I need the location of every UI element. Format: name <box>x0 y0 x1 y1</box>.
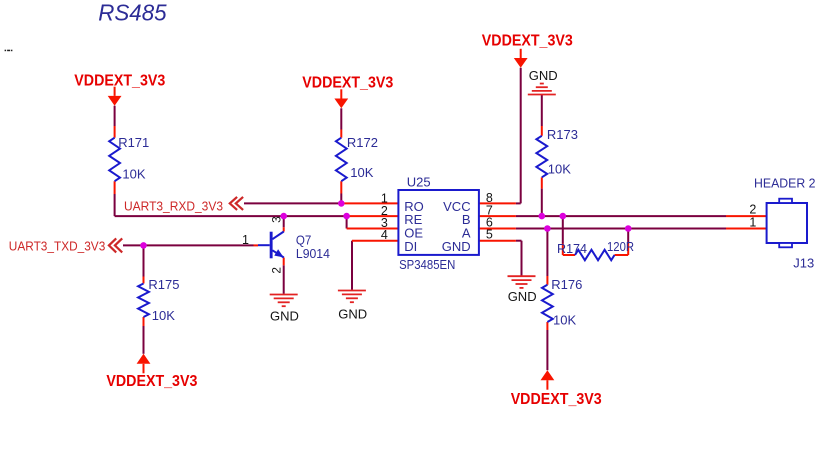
svg-text:R172: R172 <box>347 135 378 150</box>
svg-text:4: 4 <box>381 228 388 242</box>
svg-text:VDDEXT_3V3: VDDEXT_3V3 <box>482 33 573 50</box>
svg-text:J13: J13 <box>793 255 814 270</box>
svg-text:R174: R174 <box>557 241 587 256</box>
svg-text:U25: U25 <box>407 175 431 190</box>
svg-text:R171: R171 <box>118 135 149 150</box>
svg-text:10K: 10K <box>548 162 571 177</box>
svg-text:HEADER 2: HEADER 2 <box>754 175 816 190</box>
svg-text:GND: GND <box>529 68 558 83</box>
svg-text:L9014: L9014 <box>296 246 330 261</box>
svg-text:R176: R176 <box>551 277 582 292</box>
svg-text:1: 1 <box>749 216 756 230</box>
svg-text:GND: GND <box>442 239 471 254</box>
svg-text:SP3485EN: SP3485EN <box>399 257 455 272</box>
svg-text:2: 2 <box>749 203 756 217</box>
svg-text:GND: GND <box>338 306 367 321</box>
svg-text:RS485: RS485 <box>98 0 167 25</box>
svg-text:2: 2 <box>269 267 283 274</box>
svg-text:5: 5 <box>486 228 493 242</box>
svg-text:VDDEXT_3V3: VDDEXT_3V3 <box>302 75 393 92</box>
svg-text:VDDEXT_3V3: VDDEXT_3V3 <box>74 72 165 89</box>
svg-text:UART3_TXD_3V3: UART3_TXD_3V3 <box>9 238 106 253</box>
svg-text:1: 1 <box>242 233 249 247</box>
svg-text:10K: 10K <box>122 167 145 182</box>
svg-text:3: 3 <box>269 216 283 223</box>
svg-text:VDDEXT_3V3: VDDEXT_3V3 <box>511 391 602 408</box>
svg-text:GND: GND <box>508 289 537 304</box>
svg-text:GND: GND <box>270 309 299 324</box>
svg-text:VDDEXT_3V3: VDDEXT_3V3 <box>106 373 197 390</box>
svg-text:DI: DI <box>404 239 417 254</box>
svg-text:120R: 120R <box>607 239 634 254</box>
svg-text:R175: R175 <box>148 277 179 292</box>
svg-text:10K: 10K <box>350 165 373 180</box>
svg-text:R173: R173 <box>547 127 578 142</box>
svg-text:10K: 10K <box>553 312 576 327</box>
svg-text:10K: 10K <box>152 308 175 323</box>
svg-text:UART3_RXD_3V3: UART3_RXD_3V3 <box>124 199 223 214</box>
